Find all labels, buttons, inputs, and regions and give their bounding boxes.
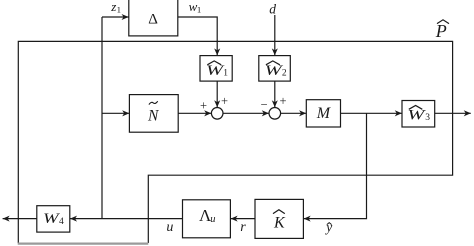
svg-text:u: u xyxy=(210,214,215,225)
svg-text:W: W xyxy=(407,108,426,124)
wire: z1 line into Delta xyxy=(102,16,129,18)
svg-text:P: P xyxy=(435,21,447,41)
wire: M to W-hat-3 xyxy=(341,112,402,114)
svg-text:z: z xyxy=(110,0,116,14)
svg-text:2: 2 xyxy=(282,69,287,79)
svg-text:W: W xyxy=(206,63,225,79)
svg-text:K: K xyxy=(273,215,286,232)
wire: u line from Lambda-u to W4 xyxy=(70,218,183,220)
svg-text:y: y xyxy=(324,219,332,234)
wire: branch into N-tilde xyxy=(102,112,129,114)
block N-tilde xyxy=(129,95,178,133)
summing junction circle 2 xyxy=(269,108,281,120)
svg-text:u: u xyxy=(166,220,173,235)
svg-text:M: M xyxy=(316,105,332,122)
svg-text:1: 1 xyxy=(223,69,228,79)
svg-text:W: W xyxy=(43,211,60,227)
block M xyxy=(306,100,340,127)
svg-text:1: 1 xyxy=(197,5,201,15)
block W-hat-3 xyxy=(402,101,435,128)
svg-text:−: − xyxy=(261,98,268,112)
svg-text:W: W xyxy=(265,63,284,79)
wire: W-hat-1 to circle 1 xyxy=(216,81,218,107)
svg-text:+: + xyxy=(280,94,287,108)
wire: y-hat tap down and into K-hat xyxy=(304,113,367,218)
block Delta (top clipped) xyxy=(129,0,178,36)
svg-text:1: 1 xyxy=(117,5,121,15)
wire: circle 1 to circle 2 xyxy=(223,112,269,114)
wire: W-hat-3 output exiting right xyxy=(435,112,471,114)
svg-text:Δ: Δ xyxy=(148,11,158,27)
svg-text:r: r xyxy=(240,220,246,235)
svg-text:4: 4 xyxy=(59,217,64,227)
bottom gray edge of P-hat region xyxy=(18,243,149,245)
svg-text:+: + xyxy=(221,94,228,108)
wire: W-hat-2 to circle 2 xyxy=(274,81,276,107)
svg-text:+: + xyxy=(200,99,207,113)
wire: N-tilde to circle 1 xyxy=(178,112,211,114)
wire: W4 output exiting left xyxy=(3,218,37,220)
svg-text:3: 3 xyxy=(425,113,430,123)
block W-hat-2 xyxy=(259,56,291,82)
boundary of P-hat region (rectilinear hexagon) xyxy=(18,41,452,243)
summing junction circle 1 xyxy=(211,108,223,120)
wire: w1 from Delta to W-hat-1 xyxy=(178,17,217,55)
block W-hat-1 xyxy=(200,56,232,82)
svg-text:d: d xyxy=(269,1,276,16)
svg-text:N: N xyxy=(147,108,160,125)
wire: K-hat to Lambda-u (r) xyxy=(231,218,255,220)
block W4 xyxy=(37,206,70,232)
wire: d into W-hat-2 xyxy=(274,15,276,55)
block K-hat xyxy=(255,199,303,238)
wire: circle 2 to M xyxy=(281,112,307,114)
block Lambda-u xyxy=(183,200,231,238)
wire: vertical from u line up to z1 xyxy=(101,17,103,219)
